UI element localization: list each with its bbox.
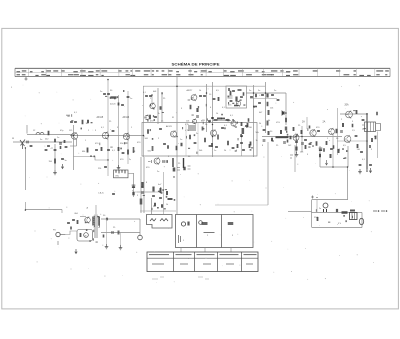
label det5 — [258, 90, 260, 92]
svg-text:1k: 1k — [86, 123, 88, 125]
resistor R29 — [326, 141, 328, 145]
blob agc7 — [161, 204, 163, 208]
blob af6 — [301, 130, 303, 134]
blob det2 — [202, 127, 204, 131]
resistor R8 — [118, 147, 120, 151]
label fi2 — [181, 108, 183, 110]
label 2a right — [323, 121, 326, 124]
arrow G7 — [369, 168, 371, 173]
wire vertical x158 — [157, 88, 159, 124]
blob agc4 — [160, 188, 162, 193]
cell1 knob — [181, 222, 185, 226]
label af8 — [336, 138, 339, 140]
capacitor C34 — [240, 135, 243, 136]
transformer psu — [350, 213, 358, 220]
resistor R24 — [267, 102, 269, 107]
capacitor C61 — [304, 139, 307, 140]
cell3 blob — [228, 222, 234, 225]
capacitor C46 — [369, 164, 372, 165]
resistor R30 — [356, 110, 358, 114]
transistor Q2 — [102, 132, 108, 140]
ground G2 — [61, 164, 63, 169]
page specks — [23, 85, 374, 283]
capacitor C13 — [104, 166, 107, 167]
IF module box — [142, 123, 257, 157]
blob agc2 — [140, 199, 143, 205]
label R3 value — [49, 161, 53, 163]
blob af2 — [271, 138, 273, 142]
psu mid wire — [312, 212, 363, 214]
capacitor C55 — [166, 160, 167, 163]
capacitor C27 — [199, 95, 202, 96]
electrolytic C47 — [323, 203, 328, 212]
wire y192 agc — [135, 191, 164, 193]
motor circle M — [84, 233, 89, 238]
svg-text:1n: 1n — [205, 124, 207, 126]
resistor R4 — [82, 120, 84, 125]
transistor Q4 — [150, 103, 156, 110]
svg-text:AF125: AF125 — [166, 125, 173, 128]
capacitor C33 — [245, 125, 248, 126]
speckle zone ift box — [228, 96, 246, 106]
cell1 label — [183, 240, 185, 242]
blob fb — [338, 149, 340, 153]
label q2 type — [97, 116, 104, 119]
blob agc3 — [152, 187, 154, 192]
detector chain blobs — [267, 110, 270, 126]
wire vertical x241 — [241, 128, 243, 156]
svg-text:SCHÉMA DE PRINCIPE: SCHÉMA DE PRINCIPE — [172, 61, 220, 66]
small box tone — [147, 215, 173, 229]
capacitor C54 — [163, 160, 164, 163]
label tape — [113, 227, 116, 229]
electrolytic C56 — [173, 158, 176, 172]
module right vert — [139, 219, 141, 236]
label C7 — [100, 91, 102, 93]
blob row1 — [217, 118, 222, 120]
left stage marks — [45, 146, 68, 151]
label top2 — [153, 91, 157, 93]
speckle zone stage1 top — [147, 92, 164, 121]
label osc — [115, 176, 120, 178]
capacitor C3 — [54, 149, 57, 150]
capacitor C12 — [122, 152, 125, 153]
node dot det — [212, 124, 213, 125]
wire out mid — [337, 140, 367, 142]
label C2 value — [51, 148, 54, 150]
label c49 — [103, 215, 106, 217]
speaker transformer box — [365, 122, 376, 132]
svg-text:2n: 2n — [274, 90, 276, 92]
label r2 — [57, 137, 59, 139]
wire vertical x118 — [118, 95, 120, 170]
label agc9 — [146, 182, 148, 184]
wire vertical x265 — [265, 82, 267, 133]
label r9b — [120, 143, 123, 145]
capacitor C9b — [121, 104, 124, 105]
label q7 — [178, 163, 181, 165]
transistor Q14 — [346, 111, 353, 119]
psu plug ticks — [373, 210, 387, 212]
resistor R17 — [237, 144, 239, 148]
electrolytic C57 — [183, 158, 185, 170]
capacitor C49 — [106, 218, 107, 221]
electrolytic C14 — [132, 185, 136, 188]
blob d1 — [181, 143, 183, 147]
speckle zone mixer top — [105, 90, 124, 99]
svg-text:2A: 2A — [323, 121, 326, 124]
marks c57 — [188, 166, 191, 169]
svg-text:5n: 5n — [258, 90, 260, 92]
label r9 — [95, 143, 99, 145]
label det3 — [216, 113, 218, 115]
capacitor C51 — [141, 192, 144, 193]
wire antenna hook — [26, 125, 28, 134]
ground G4 — [295, 152, 299, 157]
ground G8 — [105, 244, 109, 249]
blob vol — [285, 127, 287, 131]
label af125 — [166, 125, 173, 128]
capacitor C39 — [295, 141, 298, 142]
wire out top — [340, 113, 367, 115]
module ground left — [75, 249, 77, 254]
resistor R11 — [149, 115, 151, 120]
speckle zone if box interior — [150, 127, 253, 154]
svg-text:AF115: AF115 — [97, 116, 104, 119]
blob det1 — [196, 108, 198, 112]
label 20A — [345, 104, 350, 107]
wire vertical x151 to box — [151, 198, 153, 214]
label j1 — [53, 230, 56, 232]
box inner verticals — [186, 123, 198, 157]
blob af7 — [319, 154, 321, 158]
wire jack — [65, 231, 77, 235]
resistor R2 — [54, 139, 56, 143]
transistor Q9 small — [192, 119, 196, 125]
capacitor C18 — [149, 95, 152, 96]
capacitor C58 — [263, 129, 266, 130]
resistor R13 — [176, 146, 178, 151]
wire tape gnd — [106, 219, 108, 244]
label box t1 — [185, 124, 189, 126]
left margin text — [11, 87, 13, 89]
svg-text:56k: 56k — [256, 132, 259, 134]
wire box out — [128, 173, 134, 175]
wire vertical x162 — [161, 92, 163, 122]
cell3 label — [232, 235, 234, 237]
wire module out1 — [101, 218, 140, 220]
resistor R20 — [190, 105, 192, 110]
transistor Q1 — [71, 132, 77, 140]
label q8 — [187, 89, 194, 92]
blob b2 — [87, 120, 89, 124]
blob drv — [336, 129, 338, 134]
svg-text:2n: 2n — [100, 91, 102, 93]
label out3 — [362, 159, 366, 161]
capacitor C1 — [27, 141, 28, 144]
IFT box extra marks — [228, 88, 245, 106]
cell2 blob — [202, 222, 208, 225]
svg-text:20A: 20A — [345, 104, 350, 107]
arrow loop — [325, 160, 327, 165]
resistor R28 — [316, 141, 318, 146]
blob b1 — [64, 140, 66, 143]
detector row marks — [208, 118, 249, 122]
transistor Q5 — [171, 130, 177, 137]
capacitor C60 — [283, 142, 286, 143]
rectifier cluster — [342, 210, 356, 214]
transistor Q14d — [329, 128, 335, 135]
resistor R16 — [227, 141, 229, 146]
box pin stubs — [181, 248, 231, 253]
label agc — [98, 192, 104, 195]
under table marks2 — [152, 278, 209, 280]
psu right vert — [361, 213, 363, 228]
resistor R18 — [249, 144, 251, 148]
input jack J1 — [56, 232, 65, 236]
wire tape gnd2 — [120, 233, 122, 246]
module extra marks — [58, 217, 104, 248]
svg-text:1n: 1n — [214, 150, 216, 152]
resistor R33 — [317, 217, 319, 221]
label k56 — [256, 132, 259, 134]
coil IFT top — [188, 126, 196, 130]
transistor Q16 — [85, 217, 91, 224]
transformer T1 core — [95, 215, 97, 239]
blob tape2 — [118, 231, 120, 235]
label 2a left — [302, 121, 305, 124]
label row above box — [150, 121, 231, 123]
blob osc coil — [133, 147, 135, 153]
label b2x — [224, 125, 228, 127]
wire vertical x302 — [301, 126, 303, 152]
preamp box — [77, 230, 93, 242]
psu bottom wire — [312, 227, 362, 229]
wire vertical x212 — [212, 82, 214, 157]
svg-text:2k: 2k — [259, 123, 261, 125]
misc value labels — [33, 90, 377, 173]
capacitor C3b — [59, 143, 62, 144]
wire vertical x307 — [306, 117, 308, 129]
label det — [202, 120, 206, 122]
legend strip table — [15, 68, 390, 76]
label val47 — [185, 130, 189, 132]
svg-text:2k: 2k — [224, 150, 226, 152]
blob agc1 — [141, 182, 143, 188]
wire agc bottom — [140, 210, 176, 212]
blob q4b — [160, 106, 162, 110]
label out — [352, 130, 356, 132]
plus marks — [311, 196, 318, 199]
wire vertical x253 — [253, 85, 255, 157]
IFT dark cluster — [242, 123, 252, 146]
wire loop left — [319, 146, 321, 167]
wire af rail — [262, 136, 342, 138]
label c8b — [110, 90, 113, 92]
node dot A — [25, 147, 26, 148]
blob det right — [266, 94, 268, 98]
label box t2 — [205, 124, 207, 126]
blob in preamp — [80, 233, 82, 237]
capacitor C26 — [242, 149, 245, 150]
wire vertical x286 — [285, 93, 287, 125]
transistor Q8 — [191, 94, 197, 101]
speckle zone module — [85, 216, 99, 243]
inductor L1 — [36, 133, 44, 135]
capacitor C11 — [107, 149, 110, 150]
wire y205 left — [215, 204, 268, 206]
blob af in — [295, 147, 297, 151]
capacitor C15 — [112, 193, 115, 194]
svg-text:68k: 68k — [82, 151, 85, 153]
capacitor C6 — [74, 121, 77, 122]
svg-text:1k: 1k — [216, 113, 218, 115]
resistor R12 — [147, 129, 149, 134]
capacitor C48 — [72, 219, 75, 220]
svg-text:OSC: OSC — [115, 176, 120, 178]
label pile — [314, 217, 319, 219]
resistor R35 — [168, 198, 173, 200]
box divider 2 — [221, 215, 223, 248]
wire to psu line — [137, 191, 155, 193]
svg-text:1n: 1n — [130, 98, 132, 100]
svg-text:2x: 2x — [319, 208, 321, 210]
wire vertical x108 — [107, 79, 109, 176]
label A mark — [87, 207, 89, 210]
wire vertical left long — [24, 148, 26, 210]
transformer winding blobs — [92, 217, 100, 226]
cell2 label — [207, 235, 209, 237]
wire loop right — [347, 146, 349, 167]
resistor R9 — [127, 150, 129, 155]
resistor R1 — [48, 131, 50, 136]
label vol — [276, 122, 281, 124]
transistor Q13 — [310, 129, 316, 137]
label fi1 — [158, 113, 160, 115]
blob agc6 — [154, 203, 156, 207]
capacitor C44 — [360, 151, 363, 152]
label drv — [300, 152, 304, 154]
label R1 value — [45, 139, 49, 141]
speckle zone stage0 — [67, 114, 92, 129]
wire vertical x206 — [206, 84, 208, 132]
battery circle — [359, 218, 363, 224]
wire psu drop — [347, 167, 349, 200]
blob b3 — [118, 103, 120, 106]
marks right q7 — [177, 168, 180, 171]
wire bus antenna top — [27, 134, 73, 136]
svg-text:1k: 1k — [166, 204, 168, 206]
svg-text:AF116: AF116 — [123, 116, 130, 119]
label out2 — [357, 149, 361, 151]
bar af dark — [276, 136, 289, 138]
capacitor C22 — [194, 142, 197, 143]
wire y98 segment — [250, 98, 277, 100]
speckle zone out — [339, 110, 366, 159]
transistor Q10 — [236, 100, 241, 106]
label R5 — [110, 104, 116, 106]
wire top rail mid — [143, 85, 265, 87]
resistor R23 — [241, 122, 243, 126]
label k1 — [256, 140, 258, 142]
wire vertical x337 — [337, 108, 339, 155]
label ant — [12, 138, 14, 140]
transistor Q6 — [211, 129, 217, 136]
label q3 type — [123, 116, 130, 119]
svg-text:10k: 10k — [186, 121, 189, 123]
wire agc loop — [74, 157, 109, 161]
ground G9 — [119, 245, 123, 250]
transistor Q11 — [231, 120, 236, 127]
label v560 — [148, 151, 152, 153]
blob d3 — [336, 209, 338, 212]
right column wire x377 — [377, 132, 379, 159]
wire vertical x296 — [296, 137, 298, 154]
label fi — [172, 117, 174, 119]
label in box — [228, 105, 232, 107]
oscillator box — [114, 170, 129, 178]
output jack J2 — [138, 235, 143, 240]
label det6 — [274, 90, 276, 92]
wire vertical x177 long — [176, 77, 178, 214]
blob q5e — [167, 145, 169, 149]
capacitor C9 — [127, 96, 130, 97]
ground G6 — [358, 169, 362, 174]
label q16 — [75, 213, 79, 215]
table frame — [147, 252, 258, 272]
capacitor C53 — [159, 197, 162, 198]
capacitor C62 — [30, 145, 33, 146]
psu vert x317 — [316, 200, 318, 213]
blob ift in box — [235, 97, 237, 102]
label c13 — [98, 168, 101, 170]
label det right — [270, 108, 273, 110]
capacitor C10 — [95, 149, 98, 150]
label agc10 — [158, 184, 162, 186]
psu left vert — [311, 200, 313, 228]
label q1 type — [69, 130, 73, 132]
blob right column — [375, 136, 377, 140]
capacitor C4 — [61, 158, 64, 159]
svg-text:1n: 1n — [161, 121, 163, 123]
speckle zone fi top — [188, 98, 211, 129]
ground G1 — [53, 170, 57, 175]
label mix — [112, 150, 116, 152]
speckle zone rf cluster — [90, 142, 135, 157]
svg-text:C.A.G.: C.A.G. — [98, 192, 104, 195]
label r12 — [145, 138, 149, 140]
blob out1 — [342, 123, 344, 127]
wire module top — [95, 205, 97, 215]
wire vertical x293 — [294, 145, 296, 172]
cell1 marks — [179, 235, 181, 243]
label top1 — [143, 92, 147, 94]
resistor R22 — [218, 97, 220, 101]
label agc8 — [166, 204, 168, 206]
wire antenna line 2 — [13, 141, 72, 143]
capacitor C21 — [163, 143, 166, 144]
blob agc5 — [166, 191, 168, 195]
cell1 blob — [187, 222, 189, 226]
wire drv drop — [332, 134, 334, 167]
svg-text:5n: 5n — [40, 139, 42, 141]
svg-text:1n: 1n — [57, 137, 59, 139]
wire vertical x268 down — [267, 142, 269, 205]
zigzag Z1 — [150, 219, 156, 222]
wire top feed x152 — [151, 95, 153, 103]
blob af3 — [280, 130, 282, 134]
label stage1b — [74, 112, 78, 114]
